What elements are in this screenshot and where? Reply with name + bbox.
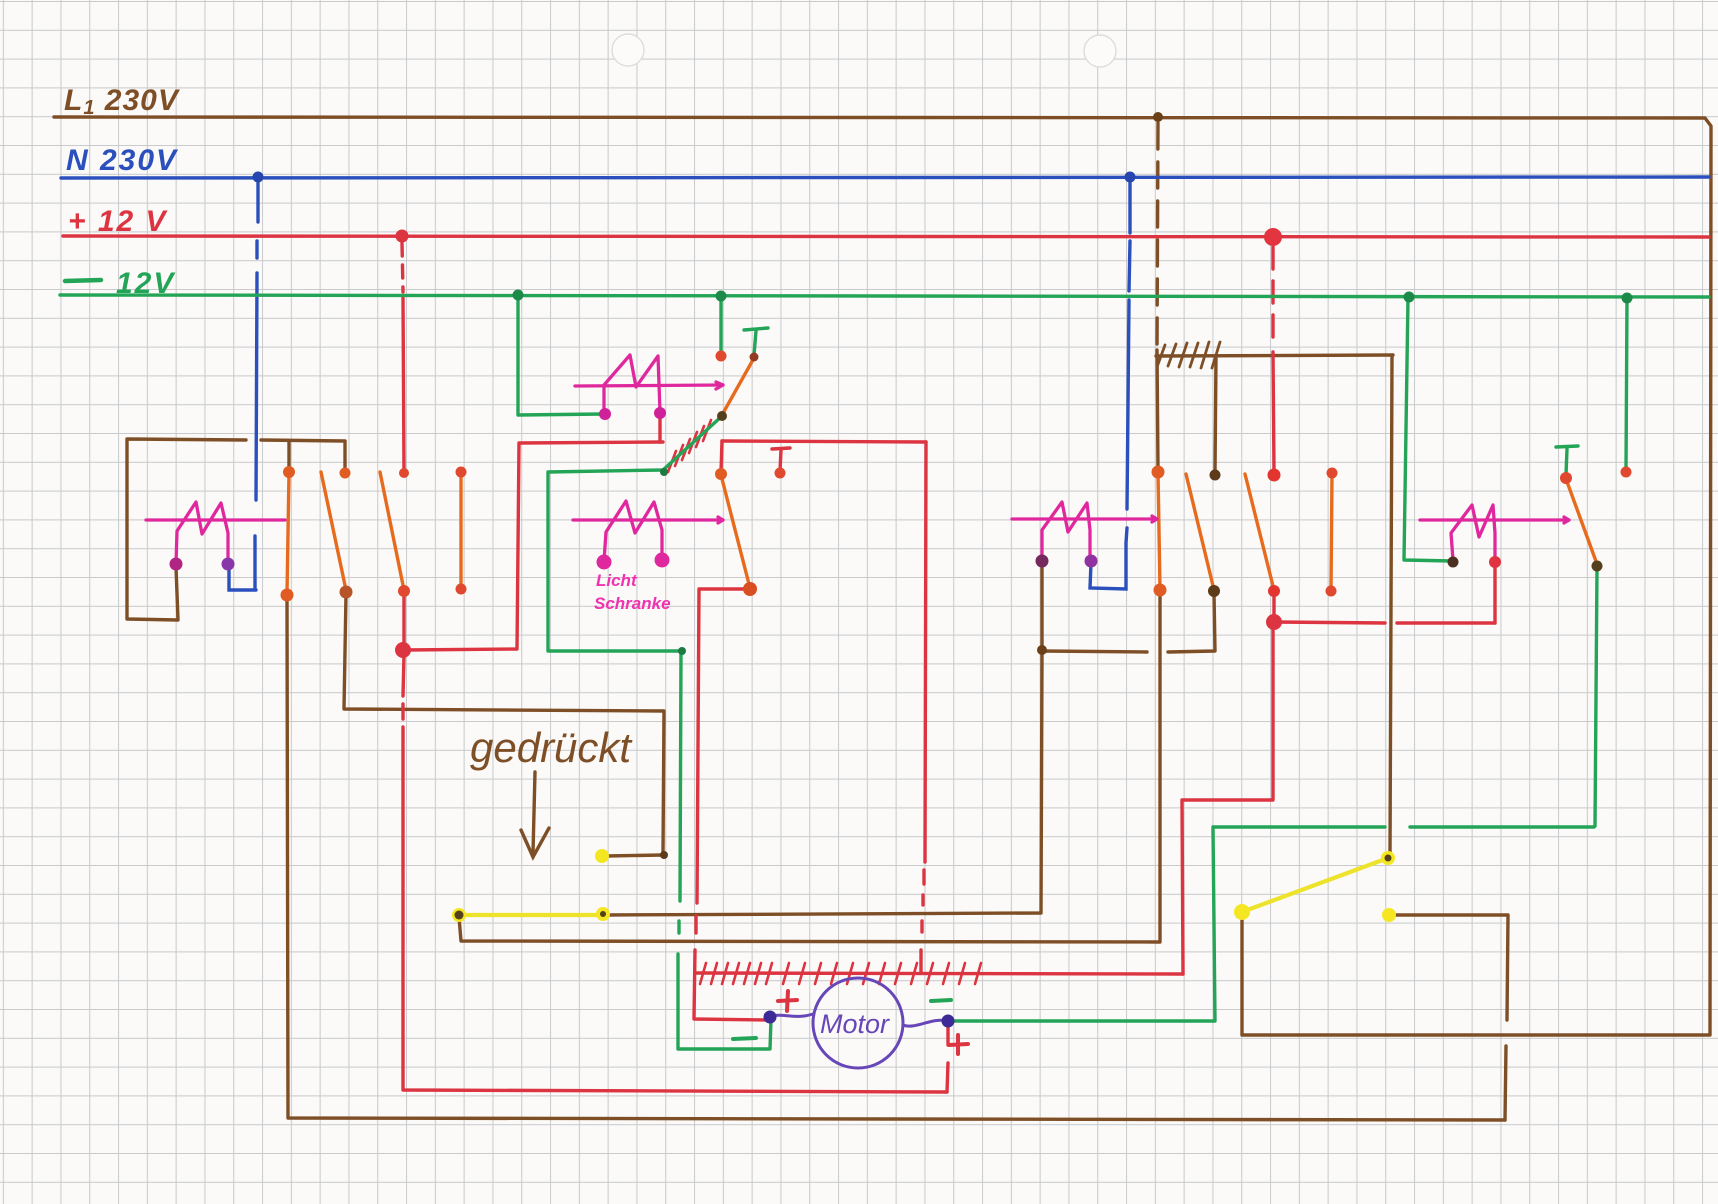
- svg-text:Schranke: Schranke: [594, 594, 671, 613]
- svg-text:12V: 12V: [116, 267, 176, 300]
- svg-text:L1 230V: L1 230V: [64, 84, 181, 119]
- svg-text:N 230V: N 230V: [66, 144, 179, 177]
- svg-text:+ 12 V: + 12 V: [68, 205, 169, 238]
- svg-text:Licht: Licht: [596, 571, 638, 590]
- svg-text:gedrückt: gedrückt: [470, 724, 633, 771]
- svg-text:Motor: Motor: [820, 1009, 890, 1039]
